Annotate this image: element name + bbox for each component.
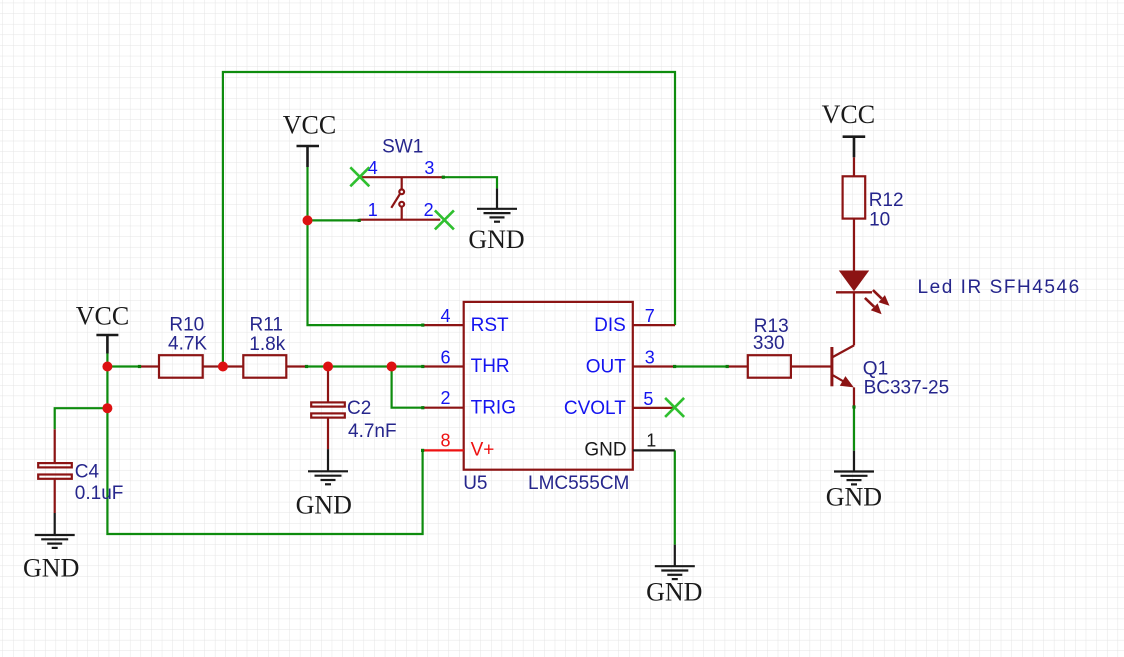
svg-text:Q1: Q1 [863,358,888,379]
junction node C2 [323,362,333,372]
junction node SW1 [303,215,313,225]
U5 pin CVOLT stub [633,407,675,409]
U5 pin TRIG stub [423,407,464,409]
svg-text:1.8k: 1.8k [249,334,285,355]
no-connect X pin4 SW1 [350,167,369,186]
wire R11 right to THR through junctions C and D [306,365,423,367]
svg-text:4.7nF: 4.7nF [348,421,397,442]
wire VCC1 to junction A [106,354,108,367]
capacitor C2 [311,367,345,450]
LED D1 Led IR SFH4546 [836,271,890,346]
svg-text:8: 8 [440,431,450,451]
svg-text:3: 3 [645,348,655,368]
svg-text:LMC555CM: LMC555CM [528,473,629,494]
wire Q1 emitter to ground [853,407,855,451]
resistor R12 [843,157,866,270]
svg-text:R10: R10 [169,314,204,335]
resistor R13 [727,355,832,378]
svg-text:10: 10 [869,209,890,230]
svg-text:6: 6 [440,347,450,367]
ground sym C4 [35,513,75,548]
wire junction A to R10 left [107,365,139,367]
svg-text:GND: GND [584,440,626,461]
svg-text:VCC: VCC [283,110,336,139]
U5 pin THR stub [423,365,464,367]
svg-text:V+: V+ [471,439,495,460]
ground sym SW1 [477,188,517,221]
svg-text:TRIG: TRIG [471,398,516,419]
svg-text:1: 1 [646,430,656,450]
wire SW1 junction to SW1 pin1 [308,219,360,221]
junction node TRIG [387,362,397,372]
wire endpoint nubs [138,176,856,452]
power VCC 1 [96,335,118,354]
LED arrow 1 [873,290,882,299]
U5 pin V+ stub [423,449,464,451]
svg-text:DIS: DIS [594,315,626,336]
junction node R10/R11 [218,362,228,372]
ground sym Q1 [834,451,874,485]
wire junction D to TRIG pin2 [392,367,423,408]
svg-text:CVOLT: CVOLT [564,398,626,419]
no-connect X pin2 SW1 [435,210,454,229]
svg-text:GND: GND [468,225,524,254]
power VCC 3 [843,137,866,158]
svg-text:3: 3 [424,158,434,178]
svg-text:U5: U5 [463,473,487,494]
U5 pin GND stub [633,449,675,451]
U5 pin OUT stub [633,365,675,367]
svg-text:GND: GND [826,482,882,511]
svg-text:GND: GND [296,490,352,519]
transistor Q1 [832,345,854,407]
LED arrow 2 [865,298,874,307]
svg-text:4.7K: 4.7K [168,334,207,355]
svg-text:OUT: OUT [586,356,627,377]
resistor R11 [243,355,306,378]
wire top loop from junction R10/R11 up over to DIS pin7 [223,72,675,367]
svg-text:GND: GND [646,578,702,607]
junction node B [102,403,112,413]
ground sym C2 [308,449,348,484]
svg-text:THR: THR [471,356,510,377]
svg-text:7: 7 [645,306,655,326]
svg-text:R11: R11 [250,315,283,336]
svg-text:RST: RST [471,315,509,336]
capacitor C4 [38,429,72,513]
wire junction A down, bottom run, up to V+ pin8 [107,367,422,535]
wire OUT pin3 to R13 [675,365,728,367]
wire junction B to capacitor C4 [55,408,108,429]
svg-text:Led IR SFH4546: Led IR SFH4546 [918,277,1081,298]
svg-text:1: 1 [368,200,378,220]
svg-text:0.1uF: 0.1uF [75,483,124,504]
wire SW1 pin3 to ground [443,177,497,188]
svg-text:R12: R12 [869,190,904,211]
U5 pin DIS stub [633,324,675,326]
IC U5 LMC555CM [464,302,633,470]
resistor R10 [140,355,244,378]
svg-text:C2: C2 [347,398,371,419]
svg-text:GND: GND [23,554,79,583]
svg-text:2: 2 [440,388,450,408]
svg-text:5: 5 [643,389,653,409]
switch SW1 [359,177,443,220]
svg-text:VCC: VCC [822,100,875,129]
U5 pin RST stub [423,324,464,326]
ground sym U5 pin1 [655,545,695,579]
junction node A [102,362,112,372]
svg-text:BC337-25: BC337-25 [864,378,950,399]
svg-text:VCC: VCC [76,302,129,331]
no-connect X pin5 CVOLT [665,398,684,417]
power VCC 2 [297,146,320,167]
svg-text:2: 2 [424,200,434,220]
svg-text:330: 330 [753,333,785,354]
svg-text:4: 4 [440,306,450,326]
wire GND pin1 down to ground [674,450,676,544]
svg-text:C4: C4 [75,462,100,483]
wire VCC2 down through SW1 junction to RST pin4 [308,167,423,325]
svg-text:SW1: SW1 [382,136,423,157]
